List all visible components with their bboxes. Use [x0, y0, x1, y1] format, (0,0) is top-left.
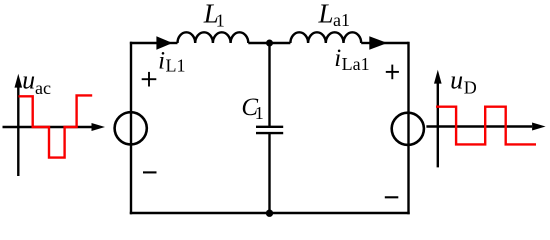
label i_L1: [158, 48, 185, 76]
bottom wire: [130, 212, 410, 214]
right rail wire: [407, 42, 409, 214]
svg-text:L: L: [318, 0, 334, 29]
minus (left source): [143, 171, 157, 173]
middle branch wire upper: [268, 43, 270, 127]
bottom node dot: [266, 210, 273, 217]
label u_D: [450, 65, 477, 97]
svg-text:D: D: [464, 78, 477, 98]
svg-text:1: 1: [255, 103, 264, 123]
left plot x-axis: [3, 123, 106, 131]
wire arrow to top right corner: [380, 42, 409, 44]
label La1: [318, 0, 351, 30]
node A dot (top middle): [266, 40, 273, 47]
label C1: [241, 94, 263, 123]
svg-text:u: u: [450, 65, 463, 94]
waveform u_ac trace: [19, 95, 93, 157]
label i_La1: [334, 45, 369, 74]
middle branch wire lower: [268, 133, 270, 213]
current arrow i_La1: [369, 36, 387, 49]
svg-text:L1: L1: [166, 55, 186, 75]
svg-text:La1: La1: [342, 54, 370, 74]
label u_ac: [22, 66, 51, 99]
label L1: [203, 0, 225, 30]
inductor La1: [290, 32, 361, 43]
svg-text:ac: ac: [35, 78, 51, 98]
inductor L1: [178, 32, 249, 43]
wire L1 to node A: [248, 42, 290, 44]
minus (right source): [385, 196, 399, 198]
svg-text:i: i: [334, 45, 341, 72]
svg-text:u: u: [22, 66, 35, 95]
svg-text:1: 1: [216, 10, 225, 30]
wire arrow to L1: [168, 42, 178, 44]
current arrow i_L1: [156, 36, 172, 49]
capacitor C1: [256, 127, 283, 133]
right plot y-axis: [434, 70, 442, 168]
voltage source U2 (right): [392, 113, 424, 145]
waveform u_D trace: [436, 107, 536, 145]
wire La1 to arrow: [361, 42, 370, 44]
right plot x-axis: [426, 123, 545, 131]
left rail wire: [130, 42, 132, 214]
voltage source U1 (left): [115, 112, 147, 144]
plus (left source): [142, 72, 157, 87]
wire top left: [130, 42, 157, 44]
svg-text:i: i: [158, 48, 165, 75]
svg-text:a1: a1: [333, 10, 350, 30]
plus (right source): [386, 65, 399, 80]
left plot y-axis: [15, 74, 23, 176]
